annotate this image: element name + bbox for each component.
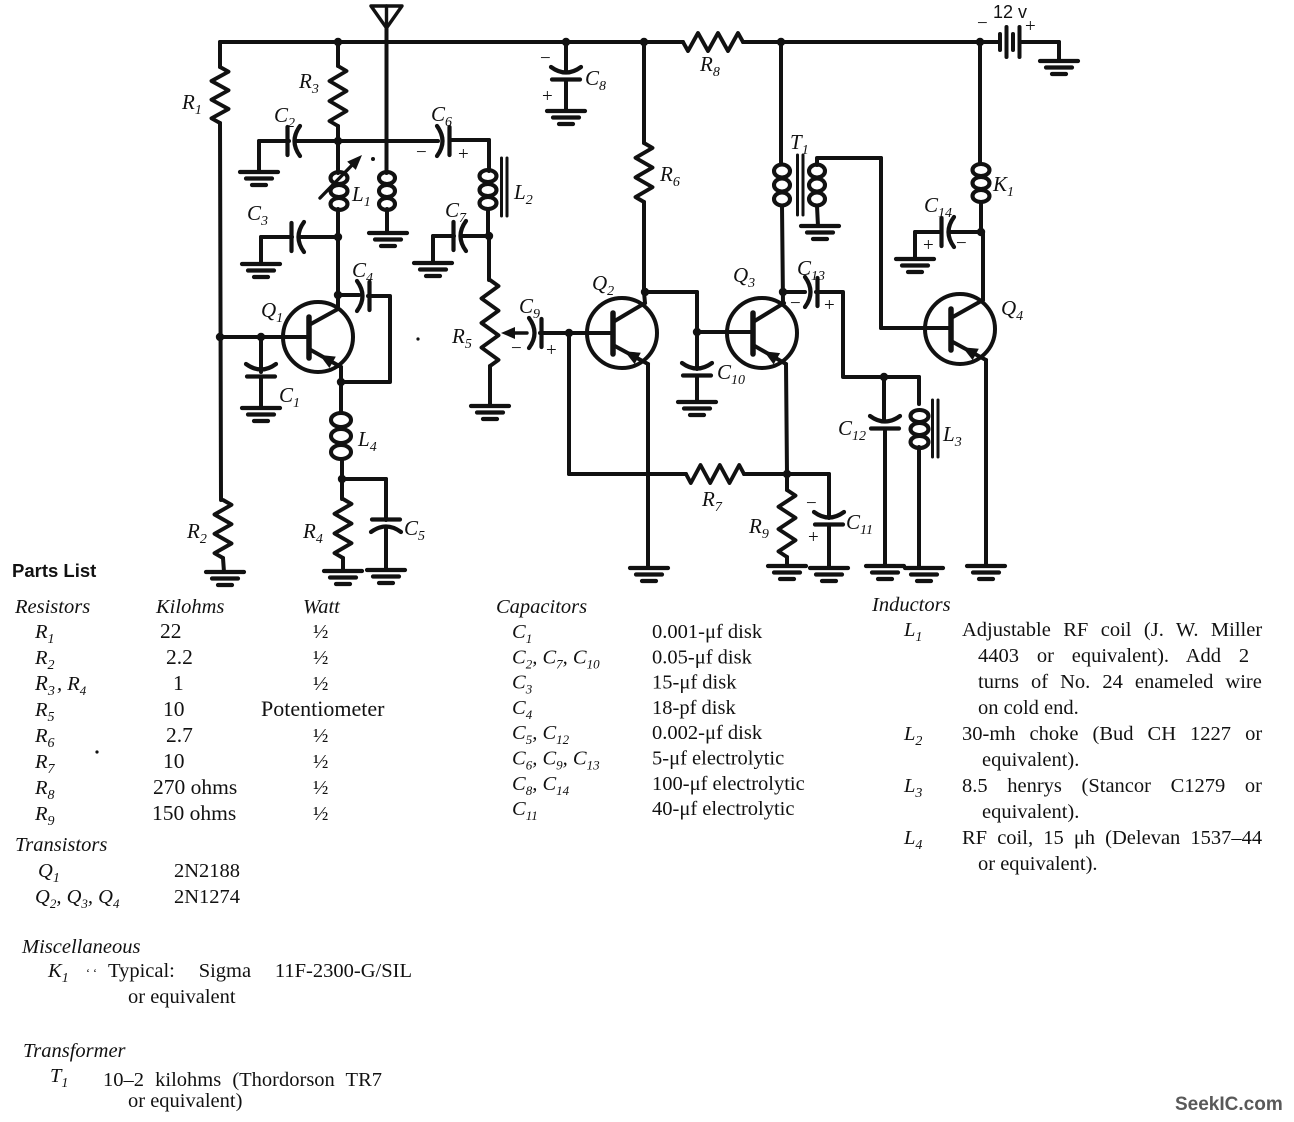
wire C14 to ground [915,232,940,259]
label R1 [181,90,202,118]
resistor R5 potentiometer [482,280,499,366]
capacitor C4 [357,281,370,311]
wire T1 primary top lead [779,42,783,164]
label R4 [302,519,323,547]
capacitor C9 [529,318,542,348]
svg-text:8.5 henrys (Stancor C1279 or: 8.5 henrys (Stancor C1279 or [962,775,1262,797]
svg-text:−: − [511,338,522,359]
svg-text:100-μf electrolytic: 100-μf electrolytic [652,773,805,795]
wire C7 to ground [433,236,454,263]
wire R4 top lead [340,479,344,499]
polarity C11 [806,493,819,548]
svg-text:or equivalent: or equivalent [128,986,236,1008]
svg-text:Typical: Sigma 11F-2300-G/SIL: Typical: Sigma 11F-2300-G/SIL [108,960,412,982]
node Q1 emitter junction [337,378,345,386]
label C12 [838,416,866,444]
svg-text:equivalent).: equivalent). [982,801,1079,823]
wire C3 right lead [301,235,338,239]
svg-text:Kilohms: Kilohms [155,596,224,618]
node C7/L2/R5 junction [485,232,493,240]
label C10 [717,360,745,388]
node K1/C14/Q4 collector junction [977,228,985,236]
label L1 [351,182,371,210]
wire C5 to ground [384,527,388,570]
svg-text:turns of No. 24 enameled wire: turns of No. 24 enameled wire [978,671,1262,693]
ground C2 [240,172,278,185]
wire C14 right lead [950,230,981,234]
wire Q2 collector [613,303,645,322]
svg-text:2N1274: 2N1274 [174,886,240,908]
transformer T1 primary [774,165,790,304]
inductor L2 [480,140,497,236]
wire collector node to Q3 base node [645,292,697,332]
wire Q4 emitter [951,341,986,566]
label C11 [846,510,873,538]
svg-text:½: ½ [313,621,328,643]
ground Q2 emitter [630,568,668,581]
inductor L1 [331,141,348,295]
wire R3 top lead [336,42,340,66]
antenna [371,6,402,30]
wire top supply rail [220,40,1000,44]
capacitor C14 [942,217,955,247]
svg-text:150 ohms: 150 ohms [152,801,236,825]
svg-text:or equivalent).: or equivalent). [978,853,1098,875]
resistor R6 [636,143,653,202]
wire Q2 base lead [569,331,613,335]
resistor R2 [215,500,232,558]
svg-text:40-μf electrolytic: 40-μf electrolytic [652,798,794,820]
svg-text:−: − [806,493,817,514]
svg-text:10: 10 [163,697,185,721]
svg-text:Transistors: Transistors [15,834,107,856]
svg-text:2.2: 2.2 [166,645,193,669]
battery 12V [980,27,1020,57]
core L2 [502,158,508,216]
ground R5 [471,406,509,419]
node C4/collector junction [334,291,342,299]
svg-text:2.7: 2.7 [166,723,193,747]
wire Q2 emitter [613,345,648,568]
svg-text:Miscellaneous: Miscellaneous [21,936,140,958]
wire C12 to ground [883,429,887,567]
wire Q1 emitter [309,349,341,382]
transistor Q4 [925,294,995,364]
svg-text:SeekIC.com: SeekIC.com [1175,1094,1283,1115]
wire C13 left lead [783,290,805,294]
wire C5 top leads [342,479,386,520]
label R9 [748,514,769,542]
svg-text:+: + [1025,16,1036,37]
svg-text:+: + [458,144,469,165]
parts list text [12,560,1283,1115]
node rail-T1 junction [777,38,785,46]
wire Q3 base lead [697,330,753,334]
node rail-R3 junction [334,38,342,46]
polarity C13 [790,293,835,316]
polarity C14 [923,233,967,256]
wire K1 top lead [978,42,982,164]
node C2/R3/L1 junction [334,137,342,145]
wire Q1 base lead [220,335,309,339]
wire C11 top leads [787,474,829,518]
resistor R3 [330,66,347,126]
wire C7 right lead [463,234,489,238]
node Q1 base column junction [216,333,224,341]
wiper arrow R5 [501,327,527,339]
label C9 [519,294,540,322]
capacitor C7 [454,221,467,251]
label C14 [924,193,952,221]
svg-text:½: ½ [313,751,328,773]
svg-text:+: + [923,235,934,256]
inductor antenna coil [379,164,395,233]
core T1 [798,155,804,215]
wire Q3 collector [753,303,784,322]
label Q3 [733,263,755,291]
svg-text:½: ½ [313,647,328,669]
svg-text:270 ohms: 270 ohms [153,775,237,799]
artifact speck [95,157,419,754]
ground L3 [905,568,943,581]
label T1 [790,130,809,158]
wire Q1 collector [309,295,338,325]
wire R4 to ground [341,558,345,571]
wire C13 to tank [816,292,884,377]
svg-text:½: ½ [313,777,328,799]
wire Q3 emitter [753,345,787,474]
capacitor C11 [814,512,844,525]
svg-text:Potentiometer: Potentiometer [261,696,385,721]
svg-text:Watt: Watt [303,596,341,618]
wire tank node to L3 [884,377,919,404]
wire C9 node to R7 [569,333,686,474]
svg-text:Capacitors: Capacitors [496,596,587,618]
capacitor C8 [551,67,581,80]
svg-text:15-μf disk: 15-μf disk [652,672,737,694]
svg-text:−: − [790,293,801,314]
resistor R7 [686,465,744,483]
capacitor C5 [371,520,401,533]
resistor R9 [779,474,796,557]
core L3 [933,400,939,457]
svg-text:Adjustable RF coil (J. W. Mill: Adjustable RF coil (J. W. Miller [962,619,1262,641]
ground R9 [768,566,806,579]
capacitor C1 [246,364,276,377]
label Q1 [261,298,283,326]
ground C14 [896,259,934,272]
svg-text:−: − [977,13,988,34]
label C8 [585,66,606,94]
transformer T1 secondary [809,158,881,226]
wire left column upper [218,42,222,67]
wire C3 to ground [261,237,292,264]
svg-text:22: 22 [160,619,182,643]
wire Q4 collector [951,232,983,318]
label C5 [404,516,425,544]
label C4 [352,258,373,286]
svg-text:4403 or equivalent). Add 2: 4403 or equivalent). Add 2 [978,645,1249,667]
svg-text:Parts List: Parts List [12,560,96,581]
wire T1 secondary to Q4 base [879,158,883,328]
wire C9 right lead [540,331,569,335]
wire C10 top lead [695,332,699,369]
svg-text:10: 10 [163,749,185,773]
polarity C6 [416,142,469,165]
polarity battery [977,13,1036,37]
label K1 [992,172,1014,200]
svg-text:30-mh choke (Bud CH 1227 or: 30-mh choke (Bud CH 1227 or [962,723,1262,745]
label C6 [431,102,452,130]
label L4 [357,427,377,455]
svg-text:½: ½ [313,673,328,695]
svg-text:−: − [956,233,967,254]
wire battery to ground [1020,42,1060,61]
node rail-R6 junction [640,38,648,46]
node rail-C8 junction [562,38,570,46]
wire R5 top lead [487,236,491,280]
polarity C9 [511,338,557,361]
svg-text:Resistors: Resistors [14,596,90,618]
label R5 [451,324,472,352]
node C9/Q2 base junction [565,329,573,337]
svg-text:+: + [808,527,819,548]
wire C6 to L2 [450,138,490,142]
label R3 [298,69,319,97]
svg-text:18-pf disk: 18-pf disk [652,697,736,719]
ground C1 [242,408,280,421]
svg-text:0.001-μf disk: 0.001-μf disk [652,621,763,643]
arrow L1 adjustable [320,155,362,198]
ground R4 [324,571,362,584]
wire R6 bottom lead [644,202,645,303]
ground C11 [810,568,848,581]
label R2 [186,519,207,547]
wire C2 to ground [259,141,289,172]
svg-text:+: + [546,340,557,361]
transistor Q3 [727,298,797,368]
wire antenna lead-in [385,28,389,164]
wire R3 bottom lead [336,126,340,141]
label C1 [279,383,300,411]
wire R2 to ground [223,558,224,572]
node R7/R9/C11 junction [783,470,791,478]
label C3 [247,201,268,229]
node Q2 collector junction [641,288,649,296]
ground C8 [547,111,585,124]
capacitor C13 [805,277,818,307]
ground C5 [367,570,405,583]
wire C12 top lead [882,377,886,421]
transistor Q2 [587,298,657,368]
ground C12 [866,566,904,579]
ground C10 [678,402,716,415]
svg-text:−: − [540,48,551,69]
label 12 v [993,2,1027,22]
svg-text:12 v: 12 v [993,2,1027,22]
capacitor C12 [870,416,900,429]
inductor L3 [911,410,929,568]
label R7 [701,487,723,515]
svg-text:RF coil, 15 μh (Delevan 1537–4: RF coil, 15 μh (Delevan 1537–44 [962,827,1262,849]
svg-text:equivalent).: equivalent). [982,749,1079,771]
wire R9 to ground [785,557,789,566]
svg-text:10–2 kilohms (Thordorson TR7: 10–2 kilohms (Thordorson TR7 [103,1069,382,1091]
label C13 [797,256,825,284]
wire C8 top lead [564,42,568,72]
label C7 [445,198,467,226]
wire Q4 base lead [881,326,951,330]
svg-text:1: 1 [173,671,184,695]
ground T1 secondary [801,226,839,239]
resistor R4 [335,499,352,558]
svg-text:½: ½ [313,803,328,825]
wire R5 to ground [488,366,492,406]
wire C10 to ground [695,376,699,403]
wire R6 top lead [642,42,646,143]
label R8 [699,52,720,80]
resistor R1 [212,67,229,123]
ground C7 [414,263,452,276]
label L2 [513,180,533,208]
node L4/R4/C5 junction [338,475,346,483]
svg-text:Q2, Q3, Q4: Q2, Q3, Q4 [35,886,120,911]
label R6 [659,162,680,190]
capacitor C10 [682,363,712,376]
node C1 junction [257,333,265,341]
svg-text:+: + [824,295,835,316]
wire left column middle [220,123,221,500]
label L3 [942,422,962,450]
svg-text:Inductors: Inductors [871,594,951,616]
node Q3 collector junction [779,288,787,296]
svg-text:on cold end.: on cold end. [978,697,1079,719]
node Q3 base junction [693,328,701,336]
capacitor C6 [437,126,450,156]
ground battery [1040,61,1078,74]
label Q2 [592,271,614,299]
capacitor C2 [288,126,301,156]
ground Q4 emitter [967,566,1005,579]
transistor Q1 [283,302,353,372]
svg-text:−: − [416,142,427,163]
svg-text:0.002-μf disk: 0.002-μf disk [652,722,763,744]
wire C11 to ground [827,525,831,569]
wire C1 to ground [259,377,263,409]
svg-text:or equivalent): or equivalent) [128,1090,242,1112]
wire R7 right lead [744,472,787,476]
svg-text:½: ½ [313,725,328,747]
svg-text:+: + [542,86,553,107]
ground antenna coil [369,233,407,246]
label C2 [274,103,295,131]
svg-text:0.05-μf disk: 0.05-μf disk [652,646,753,668]
wire C4 around to emitter [343,296,390,382]
label Q4 [1001,296,1023,324]
relay coil K1 [973,164,990,232]
svg-text:5-μf electrolytic: 5-μf electrolytic [652,748,784,770]
wire C8 to ground [564,80,568,111]
ground C3 [242,264,280,277]
wire C4 left lead [338,293,359,297]
wire C1 top lead [259,337,263,372]
capacitor C3 [292,222,305,252]
wire C2 junction to C6 [296,139,438,143]
node C12/L3 junction [880,373,888,381]
svg-text:Transformer: Transformer [23,1040,127,1062]
svg-text:‘ ‘: ‘ ‘ [86,966,97,980]
resistor R8 [683,33,743,51]
node rail-K1 junction [976,38,984,46]
svg-text:2N2188: 2N2188 [174,860,240,882]
polarity C8 [540,48,553,107]
node C3/L1 junction [334,233,342,241]
inductor L4 [331,382,351,479]
ground R2 [206,572,244,585]
